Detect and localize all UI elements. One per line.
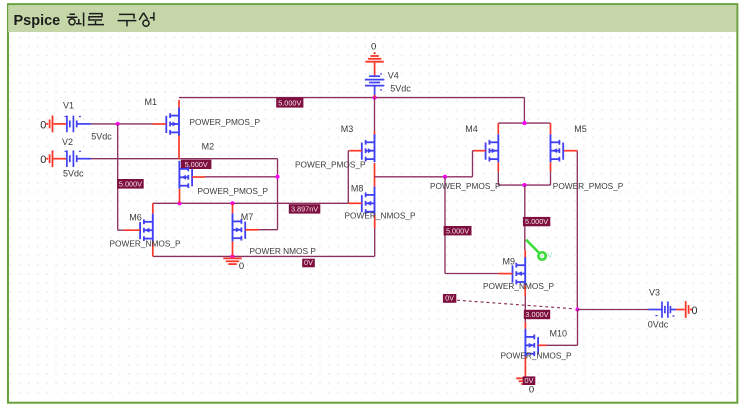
pin M9 gate [499, 273, 513, 275]
svg-text:POWER_NMOS_P: POWER_NMOS_P [345, 211, 416, 221]
svg-text:0: 0 [239, 261, 244, 272]
source V1 battery [66, 116, 68, 133]
wire down to M9 drain [524, 185, 526, 250]
wire mid rail M2/M6/M7 to M3-M8 gates [153, 202, 348, 204]
0V bias label left [443, 294, 456, 303]
pin V2 negative [54, 158, 67, 160]
wire M4-M5 drain rail [498, 122, 550, 124]
wire V4 to top rail [374, 95, 376, 98]
wire M3 gate vertical [347, 151, 349, 204]
wire M5 gate branch down [576, 151, 578, 310]
svg-text:POWER_PMOS_P: POWER_PMOS_P [190, 117, 261, 127]
node junction ground rail [230, 254, 234, 258]
pin V4 bottom [374, 86, 376, 95]
svg-text:5.000V: 5.000V [446, 226, 469, 235]
wire output node to V3 [578, 309, 649, 311]
transistor M10 (mirrored) [537, 337, 539, 354]
svg-text:5Vdc: 5Vdc [63, 169, 84, 179]
svg-text:3.897nV: 3.897nV [291, 205, 318, 214]
wire M2 gate [205, 176, 278, 178]
svg-text:M1: M1 [145, 97, 158, 107]
pin M8 gate [348, 202, 362, 204]
5.000V bias label on M9 gate branch [444, 226, 472, 235]
svg-text:3.000V: 3.000V [525, 310, 548, 319]
transistor M7 (mirrored) [244, 222, 246, 239]
pin M5 drain [550, 123, 552, 134]
transistor M1 [165, 116, 167, 133]
pin M5 gate [564, 150, 578, 152]
node junction M3-M8 tap [443, 175, 447, 179]
svg-text:0V: 0V [304, 258, 313, 267]
voltage probe marker [526, 240, 539, 253]
0V bias label at M10 ground [523, 376, 536, 385]
svg-text:5Vdc: 5Vdc [91, 132, 112, 142]
svg-text:0: 0 [692, 305, 698, 317]
svg-text:M3: M3 [341, 124, 354, 134]
svg-text:POWER_PMOS_P: POWER_PMOS_P [430, 181, 501, 191]
svg-text:5.000V: 5.000V [278, 99, 301, 108]
svg-text:V1: V1 [63, 101, 74, 111]
3.000V bias label at M9-M10 node [524, 310, 550, 319]
pin M6 drain [152, 203, 154, 213]
wire V4 rail to M3 drain [374, 98, 376, 131]
pin M7 gate [245, 229, 258, 231]
pin M7 drain [232, 203, 234, 213]
pin V3 right [670, 309, 676, 311]
pin V1 positive [77, 123, 91, 125]
svg-text:POWER_NMOS_P: POWER_NMOS_P [483, 281, 554, 291]
pin M3 gate [349, 150, 362, 152]
svg-text:M2: M2 [202, 142, 215, 152]
node junction top rail / V4 [373, 96, 377, 100]
svg-text:POWER_PMOS_P: POWER_PMOS_P [198, 186, 269, 196]
pin M4 source [497, 162, 499, 171]
pin M1 gate [153, 123, 167, 125]
pin V2 positive [77, 158, 91, 160]
svg-text:V2: V2 [62, 137, 73, 147]
wire M9 source to M10 drain [524, 283, 526, 296]
ground 0 at V1 [52, 116, 54, 133]
source V4 battery [369, 75, 380, 77]
pin M6 source [152, 242, 154, 257]
transistor M8 [361, 195, 363, 212]
pin M2 source down [179, 189, 181, 203]
0V bias label on ground rail [302, 259, 315, 268]
svg-text:0: 0 [40, 154, 46, 166]
node junction M7 drain [230, 201, 234, 205]
node junction M4-M5 sources [522, 183, 526, 187]
svg-text:0: 0 [40, 119, 46, 131]
wire M10 source to ground [524, 356, 526, 377]
node junction output to V3 [575, 307, 579, 311]
transistor M5 (mirrored) [562, 143, 564, 160]
node junction M2 gate / V2 branch [275, 175, 279, 179]
ground 0 below mid rail [223, 257, 241, 259]
ground 0 below M10 [516, 377, 534, 379]
wire top VDD rail [179, 97, 525, 99]
svg-text:5Vdc: 5Vdc [390, 83, 411, 93]
transistor M3 [361, 143, 363, 160]
pin M8 source down [374, 215, 376, 228]
pin M7 source [232, 241, 234, 256]
svg-text:M10: M10 [550, 329, 568, 339]
5.000V bias label above M9 [523, 217, 550, 226]
source V3 battery [661, 302, 663, 318]
transistor M2 (mirrored) [191, 169, 193, 186]
pin M3 source / M8 drain [374, 163, 376, 188]
svg-text:M8: M8 [351, 184, 364, 194]
svg-text:M6: M6 [129, 213, 142, 223]
svg-text:POWER_NMOS_P: POWER_NMOS_P [501, 350, 572, 360]
svg-text:Pspice: Pspice [14, 13, 61, 29]
node junction M4-M5 drains [522, 121, 526, 125]
5.000V bias label at M2 drain [181, 160, 212, 169]
wire V1 branch down to M6 gate [117, 124, 119, 230]
pin M4 drain [497, 123, 499, 134]
svg-text:POWER NMOS P: POWER NMOS P [250, 246, 317, 256]
svg-text:M7: M7 [241, 212, 254, 222]
wire output node to M10 gate [577, 310, 579, 346]
transistor M4 [485, 143, 487, 160]
source V2 battery [66, 150, 68, 167]
svg-text:5.000V: 5.000V [119, 180, 142, 189]
svg-text:POWER_PMOS_P: POWER_PMOS_P [295, 160, 366, 170]
svg-text:5.000V: 5.000V [525, 217, 548, 226]
wire V2 rail to M2/M7 gates [91, 158, 278, 160]
pin V1 negative [54, 123, 67, 125]
svg-text:0: 0 [529, 384, 534, 395]
svg-text:M5: M5 [574, 124, 587, 134]
node junction V1 wire [116, 122, 120, 126]
wire branch down to M9 gate [444, 177, 446, 274]
svg-text:M9: M9 [503, 257, 516, 267]
pin M1 drain up [178, 100, 180, 108]
pin M2 gate [192, 176, 205, 178]
5.000V bias label on V1 branch [117, 179, 144, 189]
pin V4 top [374, 63, 376, 76]
3.897nV bias label [289, 204, 321, 213]
wire M4-M5 source rail [497, 171, 499, 185]
svg-text:V3: V3 [649, 287, 660, 297]
transistor M6 [139, 222, 141, 239]
svg-text:0Vdc: 0Vdc [648, 320, 669, 330]
svg-text:V4: V4 [388, 70, 399, 80]
svg-text:POWER_PMOS_P: POWER_PMOS_P [553, 181, 624, 191]
wire V1 to M1 gate [91, 123, 153, 125]
transistor M9 [512, 265, 514, 282]
pin M9 drain [524, 250, 526, 258]
wire bottom rail M6/M7/M8 sources [153, 255, 375, 257]
pin V3 left [649, 309, 662, 311]
ground 0 at V2 [52, 150, 54, 167]
pin M5 source [550, 162, 552, 171]
ground 0 at V4 top [365, 61, 383, 63]
svg-text:M4: M4 [465, 124, 478, 134]
svg-text:0V: 0V [445, 294, 454, 303]
pin M4 gate [474, 150, 486, 152]
wire M1-M2 chain [178, 135, 180, 160]
pin M10 gate [538, 344, 546, 346]
dashed leader from 0V label to output node [457, 300, 573, 309]
ground 0 at V3 [685, 301, 687, 318]
wire M3-M8 node to M4 gate [375, 176, 473, 178]
svg-text:V: V [547, 251, 552, 260]
pin M3 drain [374, 131, 376, 138]
svg-text:0: 0 [371, 41, 376, 52]
node junction M2 source [177, 201, 181, 205]
svg-text:POWER_NMOS_P: POWER_NMOS_P [110, 238, 181, 248]
5.000V bias label on top rail [276, 97, 303, 107]
pin M6 gate [124, 229, 140, 231]
